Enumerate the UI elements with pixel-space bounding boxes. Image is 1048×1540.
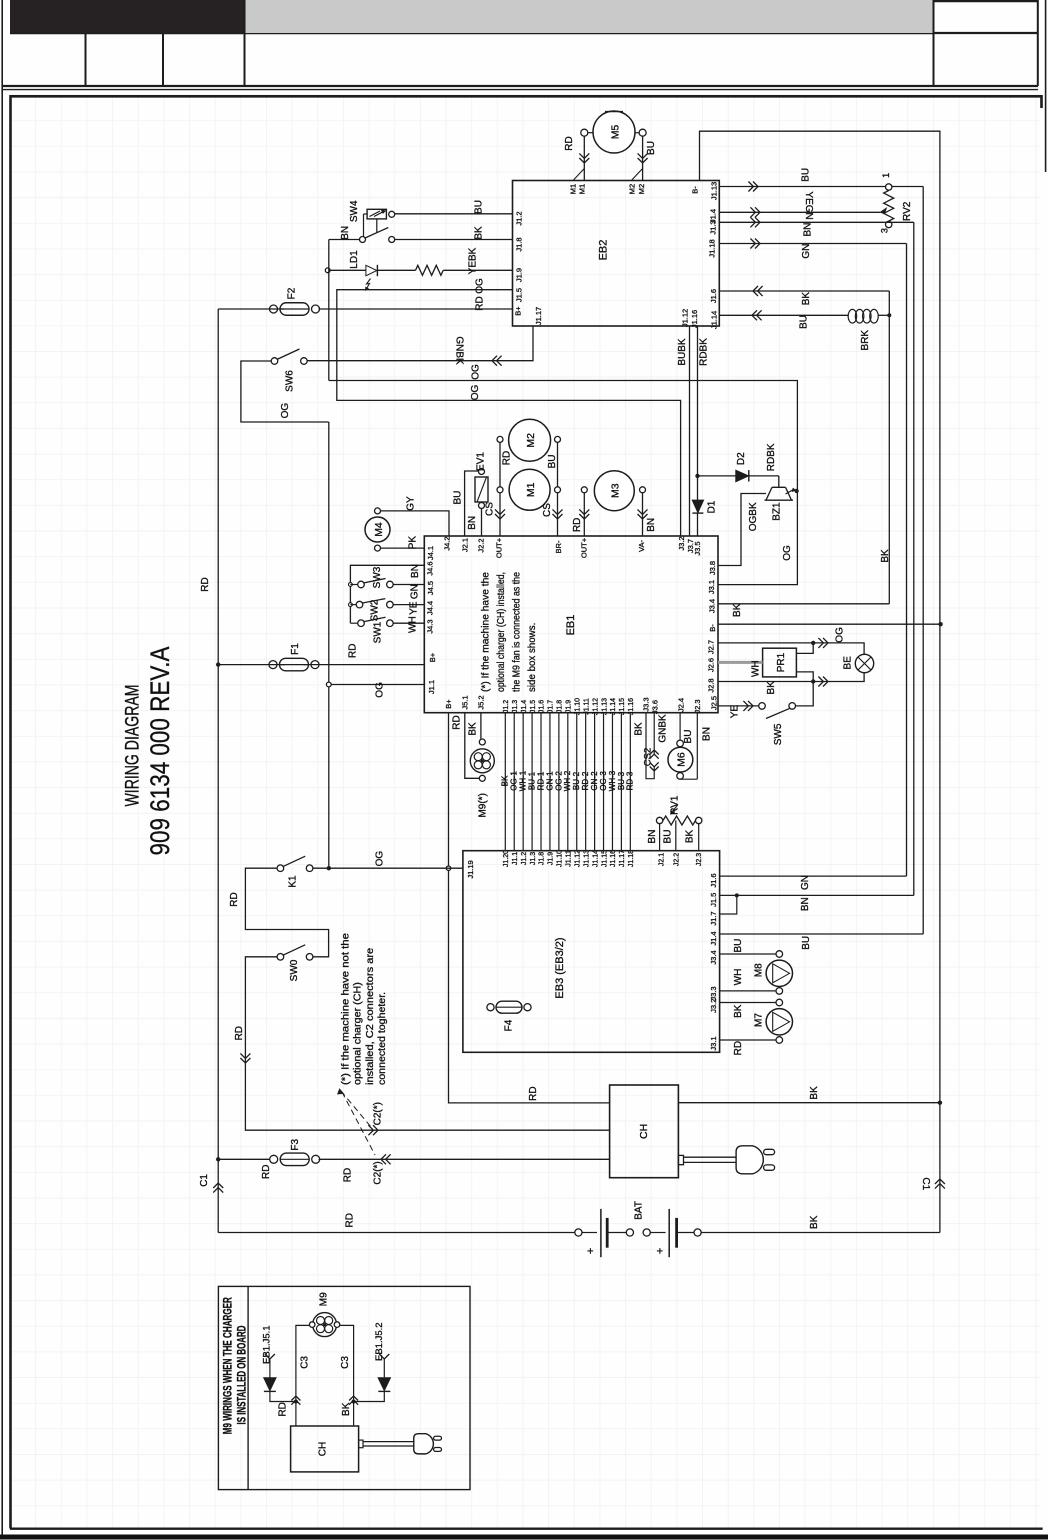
- svg-text:OG: OG: [835, 627, 846, 643]
- svg-text:BN: BN: [646, 518, 657, 532]
- svg-text:RD: RD: [277, 1402, 288, 1416]
- svg-text:J3.5: J3.5: [693, 541, 702, 555]
- wire RD SW0 to CH (C2): [245, 957, 609, 1130]
- svg-text:D2: D2: [736, 452, 747, 465]
- wire BN J1.5: [720, 894, 914, 896]
- title block black cell: [10, 0, 245, 33]
- svg-text:(*) If the machine have the: (*) If the machine have the: [479, 572, 491, 692]
- LED LD1 with resistor to EB2 J1.9 (YEBK): [325, 268, 330, 273]
- svg-text:J4.3: J4.3: [426, 619, 435, 633]
- svg-text:J1.3: J1.3: [709, 220, 718, 234]
- svg-text:F4: F4: [504, 1019, 515, 1031]
- switch SW2: [349, 603, 353, 607]
- svg-text:J1.17: J1.17: [534, 307, 543, 325]
- svg-text:BK: BK: [801, 292, 812, 306]
- svg-text:J1.15: J1.15: [601, 850, 608, 867]
- svg-text:WH: WH: [408, 616, 419, 633]
- svg-text:M4: M4: [373, 522, 385, 537]
- wire BK SW4 to EB2 J1.8: [395, 239, 513, 241]
- svg-text:J1.12: J1.12: [592, 698, 599, 715]
- svg-text:J4.1: J4.1: [426, 546, 435, 560]
- svg-text:J1.2: J1.2: [521, 852, 528, 865]
- svg-text:M8: M8: [754, 963, 765, 977]
- svg-text:J2.3: J2.3: [693, 699, 702, 713]
- svg-text:J3.1: J3.1: [709, 1036, 718, 1050]
- motor M4: [365, 517, 390, 542]
- svg-text:SW0: SW0: [289, 959, 300, 981]
- wire OG#1 to BZ1/J3.1: [329, 381, 798, 585]
- wire BN RV1 to EB3 J2.1: [659, 824, 661, 851]
- svg-text:VA-: VA-: [637, 540, 646, 552]
- motor M5: [593, 111, 635, 153]
- wire BN EB2 J1.3 to EB3 J1.5: [719, 221, 914, 223]
- svg-text:J1.5: J1.5: [530, 700, 537, 713]
- fuse F3: [216, 1157, 220, 1161]
- fuse F1: [280, 658, 309, 671]
- wire bundle EB1 J1.2-J1.16 to EB3: [504, 713, 506, 851]
- svg-text:RV1: RV1: [670, 795, 681, 815]
- wire GY M4 to EB1 J4.2: [381, 511, 450, 536]
- svg-text:M1: M1: [569, 184, 578, 194]
- svg-text:BU: BU: [663, 830, 674, 844]
- svg-text:GN: GN: [410, 584, 421, 599]
- wire K1 to EB3 J1.19 / B+ rail: [313, 867, 463, 869]
- connector CS2 loop from EB1 J3.3/J3.6: [646, 713, 654, 779]
- svg-text:OGBK: OGBK: [748, 502, 759, 531]
- svg-text:J1.2: J1.2: [515, 211, 524, 225]
- svg-text:RD: RD: [345, 1213, 356, 1227]
- switch bank bus from EB1 J4.6: [350, 565, 424, 623]
- svg-text:connected togheter.: connected togheter.: [376, 992, 388, 1085]
- diode D2 and RDBK wire to buzzer: [698, 475, 736, 477]
- svg-text:J1.19: J1.19: [466, 860, 475, 878]
- svg-text:BK: BK: [685, 830, 696, 844]
- svg-text:OG-1: OG-1: [510, 771, 519, 791]
- wire YE EB1 J2.5 to SW5: [718, 705, 759, 707]
- wire RD EB1 J5.1 to fan M9: [465, 713, 480, 779]
- svg-text:J1.11: J1.11: [566, 850, 573, 867]
- svg-text:BU: BU: [801, 936, 812, 950]
- wire YEGN EB2 J1.4 to RV2 wiper: [719, 211, 880, 213]
- svg-text:optional charger (CH) installe: optional charger (CH) installed,: [495, 572, 507, 692]
- svg-text:OG: OG: [475, 278, 486, 294]
- svg-text:M5: M5: [609, 125, 621, 140]
- svg-text:BK: BK: [809, 1215, 820, 1229]
- svg-text:the M9 fan is connected as the: the M9 fan is connected as the: [510, 572, 522, 692]
- svg-text:BU: BU: [800, 168, 811, 182]
- svg-text:J1.16: J1.16: [690, 310, 699, 328]
- wire BU EB2 J1.13 to RV2 pin1: [719, 186, 885, 188]
- page border left: [1, 0, 3, 1537]
- inset fan M9: [313, 1313, 337, 1337]
- diode D1: [692, 500, 703, 512]
- svg-text:J1.13: J1.13: [601, 698, 608, 715]
- wire BUBK EB2 J1.12 to EB1 J3.7: [689, 326, 691, 536]
- brake coil BRK: [848, 309, 857, 323]
- motor M2: [509, 419, 551, 461]
- svg-text:J2.3: J2.3: [696, 853, 703, 866]
- svg-text:J1.12: J1.12: [574, 850, 581, 867]
- svg-text:J1.7: J1.7: [709, 911, 718, 925]
- switch SW5: [759, 703, 766, 710]
- svg-text:BK: BK: [341, 1402, 352, 1416]
- svg-text:RD: RD: [572, 518, 583, 532]
- wire BN rail from SW4: [362, 242, 364, 244]
- page border bottom: [0, 1535, 1048, 1540]
- fan M9: [479, 739, 485, 745]
- wire BU RV2 pin1 to EB3 J1.4: [892, 186, 923, 188]
- svg-text:BK: BK: [880, 549, 891, 563]
- svg-text:J1.10: J1.10: [557, 850, 564, 867]
- svg-text:GN-2: GN-2: [590, 771, 599, 791]
- svg-text:CS2: CS2: [642, 748, 653, 766]
- svg-text:+: +: [655, 1248, 667, 1254]
- motor M3: [594, 471, 634, 511]
- wire B+ rail EB1 to K1/CH: [449, 713, 610, 1103]
- svg-text:J1.15: J1.15: [619, 698, 626, 715]
- svg-text:BU: BU: [474, 200, 485, 214]
- svg-text:M2: M2: [525, 433, 537, 448]
- svg-text:BZ1: BZ1: [772, 502, 783, 521]
- wire OGBK BZ1 to EB1 J3.8: [718, 494, 766, 566]
- switch SW0: [277, 954, 284, 961]
- svg-text:SW1: SW1: [373, 621, 384, 643]
- svg-text:side box shows.: side box shows.: [526, 623, 538, 692]
- svg-text:OG: OG: [470, 385, 481, 401]
- wire B- EB1 to right rail: [718, 623, 941, 625]
- switch K1: [277, 865, 284, 872]
- svg-text:J2.2: J2.2: [477, 538, 486, 552]
- wire GNBK EB2 J1.17 to SW6: [304, 326, 533, 361]
- svg-text:D1: D1: [706, 500, 717, 513]
- wire BU EB1 J2.1 to EV1: [465, 471, 479, 536]
- svg-text:PK: PK: [408, 536, 419, 550]
- svg-text:GY: GY: [406, 496, 417, 511]
- svg-text:BK: BK: [732, 603, 743, 617]
- svg-text:BN: BN: [340, 226, 351, 240]
- svg-text:J2.7: J2.7: [707, 640, 716, 654]
- svg-text:J2.2: J2.2: [673, 853, 680, 866]
- svg-text:J1.5: J1.5: [709, 893, 718, 907]
- wire M5 right lead BU: [642, 136, 644, 180]
- svg-text:J2.1: J2.1: [460, 538, 469, 552]
- svg-text:J4.2: J4.2: [443, 536, 452, 550]
- connector C1 left: [213, 1183, 223, 1188]
- svg-text:CS: CS: [485, 502, 496, 516]
- svg-text:J3.2: J3.2: [709, 999, 718, 1013]
- svg-text:J3.2: J3.2: [677, 536, 686, 550]
- inset box M9 wirings: [218, 1286, 470, 1489]
- svg-text:BK: BK: [474, 226, 485, 240]
- wire OG EB2 J1.5: [337, 290, 681, 536]
- EB3 right side: wire GN J1.6: [720, 875, 907, 877]
- svg-text:BU: BU: [733, 939, 744, 953]
- svg-text:RD-2: RD-2: [581, 771, 590, 790]
- svg-text:J1.13: J1.13: [583, 850, 590, 867]
- svg-text:RDBK: RDBK: [698, 338, 709, 366]
- inset charger CH: [291, 1426, 359, 1472]
- svg-text:J5.2: J5.2: [477, 695, 486, 709]
- svg-text:RD: RD: [343, 1168, 354, 1182]
- svg-text:SW3: SW3: [372, 566, 383, 588]
- lamp BE: [855, 654, 873, 672]
- wire RD K1 to SW0: [245, 868, 328, 957]
- svg-text:J3.6: J3.6: [651, 700, 660, 714]
- svg-text:YEBK: YEBK: [468, 247, 479, 274]
- svg-text:M1: M1: [525, 482, 537, 497]
- wire BN M3 right to EB1 VA-: [642, 493, 644, 536]
- wire RD M1/M2 left to EB1 OUT+: [499, 442, 501, 486]
- svg-text:BR-: BR-: [554, 540, 563, 553]
- svg-text:WH: WH: [751, 660, 762, 677]
- svg-text:OG-3: OG-3: [599, 771, 608, 791]
- svg-text:WH: WH: [733, 969, 744, 986]
- wire BK CH to right rail: [678, 1102, 940, 1104]
- wire RD F1 to EB1 B+: [304, 664, 425, 666]
- svg-text:J1.14: J1.14: [710, 311, 719, 329]
- svg-text:YE: YE: [409, 601, 420, 615]
- svg-text:OG-2: OG-2: [554, 771, 563, 791]
- svg-text:J1.6: J1.6: [709, 289, 718, 303]
- svg-text:SW5: SW5: [773, 723, 784, 745]
- svg-text:J1.5: J1.5: [515, 288, 524, 302]
- svg-text:RD: RD: [229, 892, 240, 906]
- svg-text:J1.14: J1.14: [610, 698, 617, 715]
- wire PR1 top pin to J2.7 line: [796, 643, 813, 654]
- svg-text:BAT: BAT: [633, 1201, 644, 1220]
- wire B- EB2 to right rail: [700, 131, 940, 1232]
- svg-text:BU: BU: [547, 454, 558, 468]
- svg-text:RD-3: RD-3: [626, 771, 635, 790]
- svg-text:BU-1: BU-1: [527, 771, 536, 790]
- inset wiring RD side: [296, 1325, 310, 1426]
- svg-text:B-: B-: [691, 186, 700, 194]
- page border right (top stub): [1045, 0, 1047, 172]
- wire PR1 bottom pin to J2.8 line: [796, 672, 813, 682]
- svg-text:RD: RD: [200, 577, 211, 591]
- fuse F4 inside EB3: [496, 1001, 522, 1013]
- svg-text:J4.5: J4.5: [426, 581, 435, 595]
- svg-text:J2.4: J2.4: [677, 698, 686, 712]
- svg-text:M9 WIRINGS WHEN THE CHARGER: M9 WIRINGS WHEN THE CHARGER: [221, 1297, 235, 1434]
- svg-text:K1: K1: [287, 875, 298, 888]
- svg-text:RD: RD: [475, 296, 486, 310]
- svg-text:J2.8: J2.8: [707, 678, 716, 692]
- svg-text:RD: RD: [451, 715, 462, 729]
- controller EB2: [513, 181, 720, 327]
- dashed arrows to C2 chevrons: [341, 1091, 371, 1127]
- svg-text:J1.16: J1.16: [610, 850, 617, 867]
- svg-text:LD1: LD1: [349, 250, 360, 269]
- svg-text:(*) If the machine have not th: (*) If the machine have not the: [339, 933, 351, 1085]
- svg-text:YE: YE: [730, 705, 741, 719]
- svg-text:BUBK: BUBK: [677, 338, 688, 366]
- svg-text:J1.9: J1.9: [566, 700, 573, 713]
- wire BU SW4 to EB2 J1.2: [395, 213, 513, 215]
- wire BU M1/M2 right to EB1 BR-: [557, 442, 559, 486]
- svg-text:RV2: RV2: [902, 201, 913, 221]
- svg-text:BU-3: BU-3: [617, 771, 626, 790]
- svg-text:J1.18: J1.18: [708, 239, 717, 257]
- wire RD M3 left to EB1 OUT+: [583, 493, 585, 536]
- battery BAT: [218, 1232, 575, 1234]
- pump M7: [720, 1002, 776, 1004]
- svg-text:J1.7: J1.7: [548, 700, 555, 713]
- svg-text:909 6134 000 REV.A: 909 6134 000 REV.A: [145, 647, 175, 856]
- svg-text:J1.4: J1.4: [521, 700, 528, 713]
- switch SW6: [271, 358, 278, 365]
- wire RD F2 to EB2 B+: [319, 308, 513, 310]
- wire GN EB2 J1.18 to EB3 J1.6: [719, 243, 906, 245]
- svg-text:SW4: SW4: [349, 200, 360, 222]
- svg-text:J1.12: J1.12: [681, 309, 690, 327]
- svg-text:J4.6: J4.6: [426, 561, 435, 575]
- svg-text:RD-1: RD-1: [536, 771, 545, 790]
- svg-text:J1.8: J1.8: [515, 237, 524, 251]
- connector C1 right: [935, 1179, 945, 1184]
- svg-text:WIRING DIAGRAM: WIRING DIAGRAM: [122, 685, 143, 807]
- wire BK EB1 J2.8 to lamp BE bottom: [718, 673, 864, 682]
- svg-text:installed, C2 connectors are: installed, C2 connectors are: [364, 948, 376, 1085]
- left rail RD (F2..battery): [217, 309, 219, 1233]
- svg-text:J2.6: J2.6: [707, 658, 716, 672]
- svg-text:B+: B+: [444, 699, 453, 709]
- svg-text:1: 1: [881, 173, 891, 178]
- svg-text:3: 3: [880, 228, 890, 233]
- wire OG SW6 to K1 rail: [241, 361, 329, 422]
- wire WH EB1 J2.6 to PR1: [718, 661, 763, 664]
- motor M1: [509, 469, 550, 510]
- wire BK EB2 J1.6 to EB1 J3.4: [719, 290, 889, 292]
- svg-text:J1.3: J1.3: [530, 852, 537, 865]
- svg-text:RD: RD: [347, 644, 358, 658]
- fuse F2: [280, 303, 309, 316]
- svg-text:J3.4: J3.4: [708, 599, 717, 613]
- svg-text:GNBK: GNBK: [658, 714, 669, 743]
- svg-text:RD: RD: [261, 1164, 272, 1178]
- svg-text:J5.1: J5.1: [461, 695, 470, 709]
- svg-text:BU: BU: [683, 730, 694, 744]
- relay PR1: [763, 648, 797, 677]
- svg-text:BU-2: BU-2: [572, 771, 581, 790]
- svg-text:B-: B-: [708, 624, 717, 632]
- charger CH: [610, 1085, 679, 1178]
- svg-text:CH: CH: [318, 1442, 329, 1456]
- svg-text:BE: BE: [843, 656, 854, 670]
- wire BK EB1 J5.2 to fan M9: [480, 713, 482, 739]
- switch SW3: [349, 583, 353, 587]
- svg-text:EB3 (EB3/2): EB3 (EB3/2): [554, 937, 566, 998]
- wire OG EB1 J1.1 to OG rail: [329, 684, 425, 686]
- svg-text:GNBK: GNBK: [453, 336, 464, 365]
- wire SW5 to J2.8 junction: [796, 682, 814, 706]
- svg-text:BN: BN: [647, 830, 658, 844]
- svg-text:RD: RD: [733, 1041, 744, 1055]
- svg-text:M2: M2: [637, 184, 646, 194]
- wire M5 left lead RD: [583, 136, 585, 180]
- svg-text:J1.18: J1.18: [628, 850, 635, 867]
- svg-text:J1.1: J1.1: [427, 680, 436, 694]
- svg-text:CH: CH: [638, 1124, 650, 1139]
- svg-text:OG: OG: [375, 851, 386, 867]
- svg-text:WH-2: WH-2: [563, 770, 572, 791]
- svg-text:OG: OG: [782, 545, 793, 561]
- svg-text:J1.20: J1.20: [503, 850, 510, 867]
- svg-text:BU: BU: [799, 315, 810, 329]
- wire RD rail to F2: [218, 308, 284, 310]
- svg-text:EB2: EB2: [597, 240, 609, 261]
- wire BU EB2 J1.14 to brake BRK: [719, 314, 849, 316]
- motor M6: [679, 713, 681, 740]
- svg-text:BU: BU: [452, 491, 463, 505]
- wire BK RV1 to EB3 J2.3: [698, 824, 700, 851]
- svg-text:OUT+: OUT+: [495, 537, 504, 558]
- svg-text:RD: RD: [502, 451, 513, 465]
- svg-text:BN: BN: [702, 727, 713, 741]
- potentiometer RV1: [656, 817, 662, 823]
- svg-text:CS: CS: [542, 503, 553, 517]
- svg-text:J1.1: J1.1: [512, 852, 519, 865]
- svg-text:B+: B+: [428, 652, 437, 662]
- svg-text:J1.9: J1.9: [515, 268, 524, 282]
- svg-text:BK: BK: [501, 775, 510, 786]
- wire OG rail down to K1: [328, 422, 330, 868]
- svg-text:BU: BU: [646, 141, 657, 155]
- svg-text:J1.8: J1.8: [557, 700, 564, 713]
- svg-text:M2: M2: [628, 184, 637, 194]
- svg-text:OG: OG: [280, 403, 291, 419]
- svg-text:C1: C1: [920, 1177, 931, 1190]
- svg-text:WH-1: WH-1: [519, 770, 528, 791]
- svg-text:+: +: [585, 1248, 597, 1254]
- svg-text:M1: M1: [578, 184, 587, 194]
- svg-text:J2.5: J2.5: [710, 696, 719, 710]
- svg-text:SW6: SW6: [285, 370, 296, 392]
- svg-text:C1: C1: [199, 1174, 210, 1187]
- switch SW4 (thermal): [367, 209, 386, 219]
- loop J1.5 to J1.7: [720, 895, 737, 914]
- svg-text:J3.3: J3.3: [642, 697, 651, 711]
- svg-text:J1.11: J1.11: [583, 698, 590, 715]
- svg-text:J3.3: J3.3: [709, 986, 718, 1000]
- svg-text:B+: B+: [514, 306, 523, 316]
- svg-text:RD: RD: [528, 1086, 539, 1100]
- svg-text:BK: BK: [733, 1004, 744, 1018]
- controller EB1: [424, 536, 718, 713]
- svg-text:J1.8: J1.8: [539, 852, 546, 865]
- svg-text:WH-3: WH-3: [608, 770, 617, 791]
- svg-text:J3.1: J3.1: [707, 580, 716, 594]
- inset wiring BK side: [340, 1325, 354, 1426]
- svg-text:PR1: PR1: [776, 652, 787, 672]
- svg-text:BRK: BRK: [860, 330, 871, 351]
- svg-text:BK: BK: [766, 681, 777, 695]
- title block cell borders: [10, 33, 934, 35]
- svg-text:F2: F2: [287, 287, 298, 299]
- svg-text:J1.6: J1.6: [539, 700, 546, 713]
- svg-text:F1: F1: [290, 643, 301, 655]
- inset power cord and plug: [359, 1440, 363, 1448]
- svg-text:OG: OG: [471, 364, 482, 380]
- svg-text:optional charger (CH): optional charger (CH): [352, 982, 364, 1085]
- svg-text:C3: C3: [340, 1356, 351, 1369]
- power cord and plug: [678, 1155, 683, 1164]
- buzzer BZ1: [772, 486, 786, 488]
- svg-text:J1.14: J1.14: [592, 850, 599, 867]
- svg-text:BN: BN: [800, 897, 811, 911]
- wire BN EV1 to EB1 J2.2: [481, 509, 483, 537]
- svg-text:J1.17: J1.17: [619, 850, 626, 867]
